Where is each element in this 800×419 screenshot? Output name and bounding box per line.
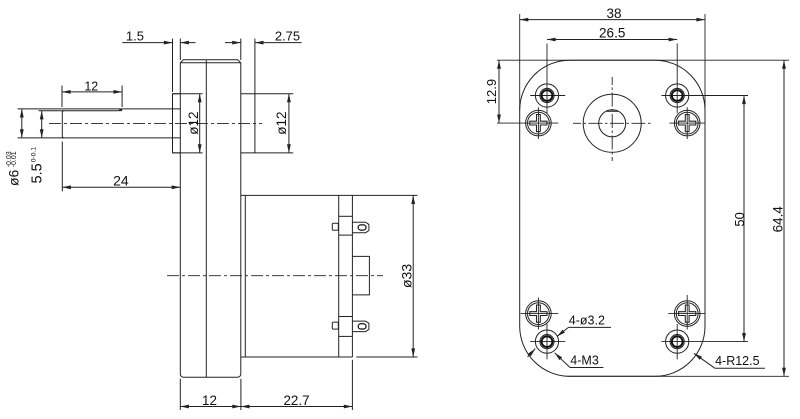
side view: lower terminal lug xyxy=(352,321,369,332)
svg-text:26.5: 26.5 xyxy=(599,26,625,41)
dimension 5.5 dim line xyxy=(41,111,43,138)
side view: lower terminal boss edges xyxy=(339,316,353,318)
dimension 22.7 dim line xyxy=(241,406,353,408)
front view: screw head bottom-right (Phillips) xyxy=(674,301,700,327)
dimension Ø6 dim line xyxy=(21,109,23,138)
front view: mounting hole top-left xyxy=(535,84,558,107)
side view: lower terminal base tab xyxy=(332,322,338,329)
side view: motor end cap seam xyxy=(338,195,340,357)
side view: plate top chamfer inner edge xyxy=(180,62,241,64)
shaft centerline xyxy=(49,122,262,124)
dimension Ø12 left dim line xyxy=(199,94,201,153)
dimension 24 extension line xyxy=(61,142,63,192)
dimension 12.9 dim line xyxy=(498,60,500,123)
side view: output shaft flat ramp xyxy=(118,109,122,111)
svg-text:50: 50 xyxy=(732,212,747,226)
dimension 50 dim line xyxy=(743,96,745,342)
dimension 12.9 top extension line (merged with plate top edge) xyxy=(497,59,789,61)
front view: crosshair bottom-right small hole (with 50 extension) xyxy=(662,341,749,343)
svg-text:64.4: 64.4 xyxy=(770,206,785,233)
dimension 38 dim line xyxy=(520,19,705,21)
front view: mounting hole bottom-right xyxy=(666,330,689,353)
front view: mounting hole top-right xyxy=(666,84,689,107)
dimension 12 (plate width) dim line xyxy=(180,406,241,408)
svg-text:4-M3: 4-M3 xyxy=(570,354,599,368)
svg-text:12: 12 xyxy=(84,80,98,94)
side view: upper terminal lug xyxy=(352,222,369,233)
front view: hub outer circle Ø12 xyxy=(583,94,641,152)
leader extra arrow at bottom-left hole xyxy=(528,349,536,357)
leader 4-M3 xyxy=(555,353,570,368)
side view: plate interior parting line xyxy=(205,60,207,377)
dimension 22.7 extension line xyxy=(351,360,353,410)
front view: crosshair top-left small hole (with 26.5 extension) xyxy=(530,95,565,97)
svg-text:12.9: 12.9 xyxy=(484,79,499,104)
dimension Ø12 right dim line xyxy=(288,94,290,153)
side view: right boss edge extensions xyxy=(255,93,293,95)
side view: motor top silhouette with Ø33 extension xyxy=(241,194,418,196)
svg-text:4-ø3.2: 4-ø3.2 xyxy=(569,313,605,327)
front view: crosshair bottom-left screw xyxy=(521,313,559,315)
side view: output shaft flat top xyxy=(39,110,118,112)
side view: gearbox plate outline xyxy=(180,60,241,377)
dimension 64.4 bottom extension line (merged with plate bottom edge) xyxy=(567,375,789,377)
front view: crosshair top-right screw xyxy=(670,122,706,124)
svg-text:ø12: ø12 xyxy=(274,112,289,135)
dimension 24 dim line xyxy=(62,186,180,188)
svg-text:24: 24 xyxy=(113,172,129,188)
dimension 1.5 extension lines xyxy=(172,39,174,92)
svg-text:5.5: 5.5 xyxy=(29,163,45,183)
dimension 1.5 dim line and arrows xyxy=(122,42,172,44)
side view: output shaft tip face xyxy=(62,111,64,138)
svg-text:-0.03: -0.03 xyxy=(6,151,13,167)
svg-text:ø6: ø6 xyxy=(6,169,22,186)
front view: crosshair top-right small hole (with 26.5 and 50 extensions) xyxy=(662,95,749,97)
front view: crosshair bottom-left small hole xyxy=(530,341,565,343)
svg-text:ø33: ø33 xyxy=(398,264,414,288)
dimension 26.5 dim line xyxy=(547,39,677,41)
svg-text:12: 12 xyxy=(202,393,217,408)
svg-text:0-0.1: 0-0.1 xyxy=(30,147,37,163)
side view: motor bottom Ø33 extension xyxy=(356,356,417,358)
svg-text:22.7: 22.7 xyxy=(283,393,309,408)
front view: screw head top-right (Phillips) xyxy=(674,110,700,136)
front view: crosshair top-left screw (with 12.9 extension) xyxy=(497,122,558,124)
svg-text:ø12: ø12 xyxy=(186,112,201,135)
front view: screw head top-left (Phillips) xyxy=(526,110,552,136)
front view: shaft hole D-flat xyxy=(607,110,618,112)
front view: hub vertical centerline xyxy=(611,77,613,161)
side view: motor back face xyxy=(351,195,353,357)
side view: output shaft top silhouette with Ø6 extension xyxy=(18,108,181,110)
dimension 2.75 dim line and arrows xyxy=(225,42,241,44)
dimension 12 (flat length) dim line xyxy=(62,91,122,93)
side view: motor front crimp line xyxy=(244,195,246,357)
side view: motor rear bearing boss xyxy=(352,256,369,295)
dimension 64.4 dim line xyxy=(783,60,785,376)
front view: hub horizontal centerline xyxy=(573,122,651,124)
svg-text:2.75: 2.75 xyxy=(275,29,300,44)
front view: mounting hole bottom-left xyxy=(535,330,558,353)
dimension 2.75 extension lines xyxy=(240,39,242,60)
side view: left boss edge extensions xyxy=(173,93,203,95)
dimension Ø33 dim line xyxy=(412,195,414,357)
leader 4-R12.5 xyxy=(694,353,715,368)
motor centerline xyxy=(167,275,383,277)
dimension 12 (plate width) extension lines xyxy=(179,379,181,410)
dimension 12 (flat length) extension lines xyxy=(61,86,63,107)
side view: left boss Ø12 xyxy=(173,94,181,153)
side view: upper terminal boss edges xyxy=(339,215,353,217)
front view: hub shaft hole xyxy=(599,110,626,137)
svg-text:4-R12.5: 4-R12.5 xyxy=(715,354,760,368)
front view: face plate outline xyxy=(520,60,705,376)
side view: output shaft bottom silhouette with extension xyxy=(18,137,181,139)
side view: right boss Ø12 xyxy=(241,94,255,153)
svg-text:38: 38 xyxy=(606,6,621,21)
side view: motor bottom silhouette xyxy=(241,356,353,358)
side view: upper terminal base tab xyxy=(332,223,338,230)
front view: screw head bottom-left (Phillips) xyxy=(526,301,552,327)
front view: crosshair bottom-right screw xyxy=(668,313,705,315)
svg-text:1.5: 1.5 xyxy=(126,29,144,44)
leader 4-Ø3.2 xyxy=(557,327,569,336)
dimension 38 extension lines xyxy=(519,14,521,110)
